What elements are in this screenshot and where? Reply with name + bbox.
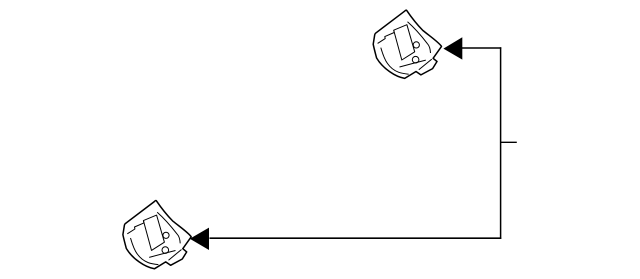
arrowhead pointing to part 1	[443, 37, 462, 59]
bracket part 1 (top right)	[373, 10, 441, 78]
leader line top segment	[462, 47, 502, 49]
leader line bottom segment	[210, 237, 502, 239]
arrowhead pointing to part 2	[190, 228, 209, 250]
tick mark on leader line	[501, 141, 517, 143]
bracket part 2 (bottom left)	[123, 201, 191, 269]
leader line vertical segment	[500, 47, 502, 239]
